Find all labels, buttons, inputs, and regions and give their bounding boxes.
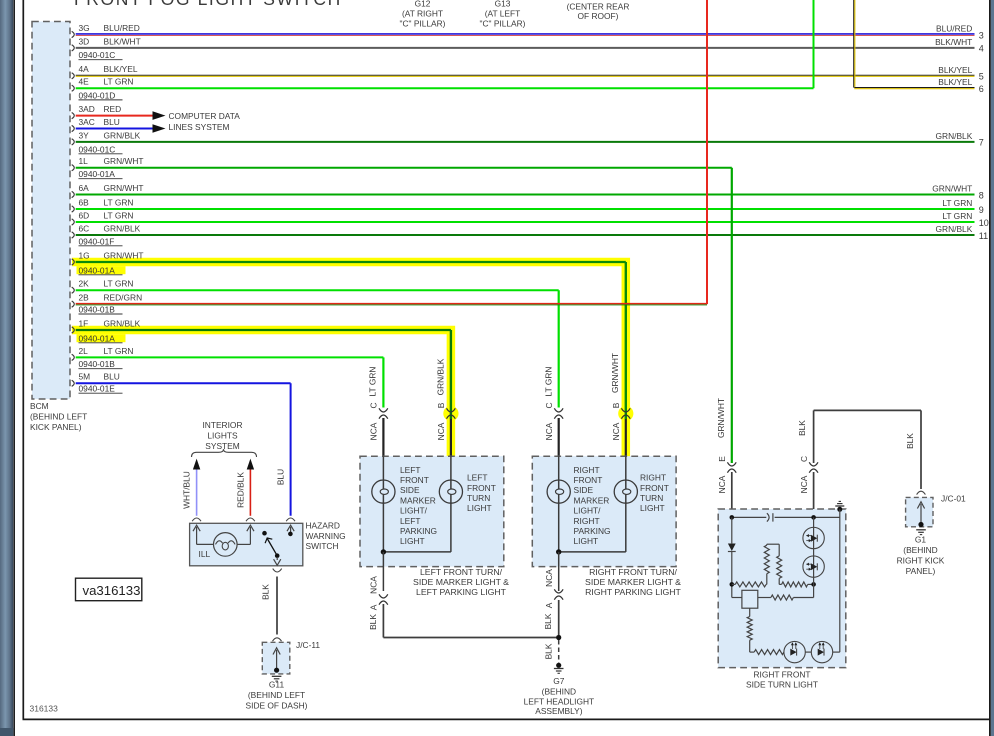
svg-text:WARNING: WARNING	[306, 531, 346, 541]
svg-text:(BEHIND LEFT: (BEHIND LEFT	[248, 690, 305, 700]
svg-text:RED/GRN: RED/GRN	[104, 293, 143, 303]
svg-text:LEFT FRONT TURN/: LEFT FRONT TURN/	[420, 567, 503, 577]
svg-text:GRN/WHT: GRN/WHT	[716, 398, 726, 438]
svg-text:MARKER: MARKER	[400, 495, 436, 505]
svg-text:LINES SYSTEM: LINES SYSTEM	[169, 122, 230, 132]
svg-text:5: 5	[979, 72, 984, 82]
svg-text:SIDE MARKER LIGHT &: SIDE MARKER LIGHT &	[413, 577, 509, 587]
svg-text:1L: 1L	[79, 156, 89, 166]
svg-text:KICK PANEL): KICK PANEL)	[30, 422, 82, 432]
svg-text:316133: 316133	[30, 704, 59, 714]
svg-text:LT GRN: LT GRN	[368, 367, 378, 397]
svg-text:BLK: BLK	[368, 614, 378, 630]
svg-text:SWITCH: SWITCH	[306, 541, 339, 551]
svg-text:LEFT HEADLIGHT: LEFT HEADLIGHT	[524, 697, 595, 707]
svg-text:2B: 2B	[79, 293, 90, 303]
svg-text:RIGHT FRONT TURN/: RIGHT FRONT TURN/	[589, 567, 677, 577]
svg-text:C: C	[544, 402, 554, 408]
svg-text:va316133: va316133	[83, 583, 141, 598]
svg-text:GRN/WHT: GRN/WHT	[610, 353, 620, 393]
svg-text:GRN/BLK: GRN/BLK	[936, 131, 973, 141]
svg-text:3: 3	[979, 30, 984, 40]
svg-text:GRN/WHT: GRN/WHT	[932, 184, 972, 194]
svg-text:6C: 6C	[79, 223, 90, 233]
svg-text:RIGHT: RIGHT	[574, 465, 600, 475]
svg-text:B: B	[436, 402, 446, 408]
svg-text:A: A	[544, 602, 554, 608]
svg-text:NCA: NCA	[436, 422, 446, 440]
svg-text:OF ROOF): OF ROOF)	[578, 11, 619, 21]
svg-text:LEFT PARKING LIGHT: LEFT PARKING LIGHT	[416, 587, 507, 597]
svg-text:9: 9	[979, 205, 984, 215]
svg-text:(AT LEFT: (AT LEFT	[485, 8, 521, 18]
svg-text:LEFT: LEFT	[400, 516, 420, 526]
svg-text:GRN/BLK: GRN/BLK	[104, 223, 141, 233]
svg-text:4E: 4E	[79, 77, 90, 87]
svg-text:4A: 4A	[79, 64, 90, 74]
svg-text:0940-01C: 0940-01C	[79, 144, 116, 154]
svg-text:NCA: NCA	[369, 576, 379, 594]
svg-text:2L: 2L	[79, 346, 89, 356]
svg-text:BLK: BLK	[543, 613, 553, 629]
svg-text:GRN/WHT: GRN/WHT	[104, 183, 144, 193]
svg-text:COMPUTER DATA: COMPUTER DATA	[169, 111, 241, 121]
svg-text:NCA: NCA	[799, 475, 809, 493]
svg-text:NCA: NCA	[369, 422, 379, 440]
svg-text:NCA: NCA	[544, 569, 554, 587]
svg-text:RIGHT KICK: RIGHT KICK	[897, 555, 945, 565]
svg-text:TURN: TURN	[467, 493, 490, 503]
svg-text:LIGHT: LIGHT	[400, 536, 425, 546]
svg-text:LIGHT: LIGHT	[467, 503, 492, 513]
svg-text:BLK: BLK	[261, 584, 271, 600]
svg-text:BLK: BLK	[543, 643, 553, 659]
svg-text:8: 8	[979, 190, 984, 200]
svg-text:6B: 6B	[79, 197, 90, 207]
svg-text:LT GRN: LT GRN	[942, 211, 972, 221]
svg-text:GRN/BLK: GRN/BLK	[104, 130, 141, 140]
svg-text:RED: RED	[104, 104, 122, 114]
svg-text:G1: G1	[915, 535, 927, 545]
svg-text:BLK/WHT: BLK/WHT	[104, 36, 141, 46]
svg-text:GRN/BLK: GRN/BLK	[435, 358, 445, 395]
svg-text:0940-01E: 0940-01E	[79, 384, 116, 394]
svg-text:2K: 2K	[79, 279, 90, 289]
svg-text:BLU/RED: BLU/RED	[104, 23, 140, 33]
svg-text:RIGHT FRONT: RIGHT FRONT	[753, 669, 810, 679]
svg-text:FRONT FOG LIGHT SWITCH: FRONT FOG LIGHT SWITCH	[74, 0, 342, 9]
svg-text:0940-01B: 0940-01B	[79, 359, 116, 369]
svg-text:6D: 6D	[79, 210, 90, 220]
svg-text:3D: 3D	[79, 36, 90, 46]
svg-text:J/C-11: J/C-11	[296, 640, 320, 650]
svg-text:LEFT: LEFT	[467, 473, 487, 483]
svg-text:HAZARD: HAZARD	[306, 521, 340, 531]
svg-text:SIDE: SIDE	[574, 485, 594, 495]
svg-text:3G: 3G	[79, 23, 90, 33]
svg-text:BLK: BLK	[797, 420, 807, 436]
svg-text:RIGHT: RIGHT	[640, 473, 666, 483]
svg-text:LIGHT/: LIGHT/	[400, 506, 428, 516]
svg-text:7: 7	[979, 138, 984, 148]
svg-text:BLU: BLU	[275, 469, 285, 485]
svg-text:3AC: 3AC	[79, 117, 95, 127]
svg-text:BLK/YEL: BLK/YEL	[104, 64, 138, 74]
svg-text:4: 4	[979, 44, 984, 54]
svg-text:SIDE MARKER LIGHT &: SIDE MARKER LIGHT &	[585, 577, 681, 587]
svg-text:NCA: NCA	[611, 422, 621, 440]
svg-text:GRN/BLK: GRN/BLK	[104, 318, 141, 328]
svg-text:PARKING: PARKING	[574, 526, 611, 536]
svg-text:FRONT: FRONT	[574, 475, 603, 485]
svg-text:MARKER: MARKER	[574, 495, 610, 505]
svg-text:0940-01C: 0940-01C	[79, 50, 116, 60]
svg-text:"C" PILLAR): "C" PILLAR)	[480, 18, 526, 28]
svg-text:PARKING: PARKING	[400, 526, 437, 536]
svg-text:0940-01A: 0940-01A	[79, 265, 116, 275]
svg-text:(BEHIND: (BEHIND	[542, 686, 576, 696]
svg-text:C: C	[369, 402, 379, 408]
svg-text:5M: 5M	[79, 372, 91, 382]
svg-text:G7: G7	[553, 676, 565, 686]
svg-text:TURN: TURN	[640, 493, 663, 503]
svg-text:G13: G13	[495, 0, 511, 9]
svg-text:BLK/WHT: BLK/WHT	[935, 37, 972, 47]
svg-text:11: 11	[979, 231, 988, 241]
svg-text:FRONT: FRONT	[467, 483, 496, 493]
svg-text:BLK/YEL: BLK/YEL	[938, 65, 972, 75]
svg-text:"C" PILLAR): "C" PILLAR)	[400, 18, 446, 28]
svg-text:BLU: BLU	[104, 117, 120, 127]
svg-text:6A: 6A	[79, 183, 90, 193]
svg-text:RIGHT: RIGHT	[574, 516, 600, 526]
svg-text:LT GRN: LT GRN	[543, 367, 553, 397]
svg-text:LT GRN: LT GRN	[104, 197, 134, 207]
svg-text:LT GRN: LT GRN	[104, 210, 134, 220]
svg-text:0940-01B: 0940-01B	[79, 305, 116, 315]
svg-text:RIGHT PARKING LIGHT: RIGHT PARKING LIGHT	[585, 587, 681, 597]
svg-text:E: E	[717, 456, 727, 462]
svg-text:LT GRN: LT GRN	[942, 198, 972, 208]
svg-text:SIDE OF DASH): SIDE OF DASH)	[246, 700, 308, 710]
svg-text:BLU/RED: BLU/RED	[936, 24, 972, 34]
svg-text:ASSEMBLY): ASSEMBLY)	[535, 706, 583, 716]
svg-text:LIGHT: LIGHT	[640, 503, 665, 513]
svg-text:0940-01F: 0940-01F	[79, 236, 115, 246]
svg-text:0940-01A: 0940-01A	[79, 169, 116, 179]
svg-text:WHT/BLU: WHT/BLU	[182, 471, 192, 509]
svg-text:0940-01D: 0940-01D	[79, 90, 116, 100]
svg-text:LIGHTS: LIGHTS	[207, 430, 238, 440]
svg-text:G11: G11	[269, 680, 285, 690]
svg-text:G12: G12	[415, 0, 431, 9]
svg-text:LIGHT/: LIGHT/	[574, 506, 602, 516]
svg-text:BLK: BLK	[905, 433, 915, 449]
svg-text:BLU: BLU	[104, 372, 120, 382]
svg-text:J/C-01: J/C-01	[941, 494, 966, 504]
svg-text:SIDE TURN LIGHT: SIDE TURN LIGHT	[746, 680, 818, 690]
svg-text:LT GRN: LT GRN	[104, 77, 134, 87]
svg-text:RED/BLK: RED/BLK	[235, 472, 245, 508]
svg-text:GRN/WHT: GRN/WHT	[104, 250, 144, 260]
svg-text:GRN/BLK: GRN/BLK	[936, 224, 973, 234]
svg-text:B: B	[611, 402, 621, 408]
svg-text:(BEHIND: (BEHIND	[903, 545, 937, 555]
svg-text:LT GRN: LT GRN	[104, 346, 134, 356]
svg-text:INTERIOR: INTERIOR	[202, 420, 242, 430]
svg-text:10: 10	[979, 218, 989, 228]
svg-text:A: A	[369, 604, 379, 610]
svg-text:NCA: NCA	[544, 422, 554, 440]
svg-text:ILL: ILL	[199, 549, 211, 559]
svg-text:3Y: 3Y	[79, 130, 90, 140]
svg-text:(BEHIND LEFT: (BEHIND LEFT	[30, 412, 87, 422]
svg-text:PANEL): PANEL)	[906, 566, 936, 576]
svg-text:C: C	[799, 456, 809, 462]
svg-text:(CENTER REAR: (CENTER REAR	[567, 1, 630, 11]
svg-text:FRONT: FRONT	[640, 483, 669, 493]
svg-text:LIGHT: LIGHT	[574, 536, 599, 546]
svg-text:GRN/WHT: GRN/WHT	[104, 156, 144, 166]
svg-text:1G: 1G	[79, 250, 90, 260]
svg-text:FRONT: FRONT	[400, 475, 429, 485]
svg-text:BLK/YEL: BLK/YEL	[938, 77, 972, 87]
svg-text:0940-01A: 0940-01A	[79, 333, 116, 343]
svg-text:BCM: BCM	[30, 401, 49, 411]
svg-text:(AT RIGHT: (AT RIGHT	[402, 8, 443, 18]
svg-text:LT GRN: LT GRN	[104, 279, 134, 289]
svg-text:NCA: NCA	[717, 475, 727, 493]
svg-text:LEFT: LEFT	[400, 465, 420, 475]
svg-text:SYSTEM: SYSTEM	[205, 441, 239, 451]
svg-text:SIDE: SIDE	[400, 485, 420, 495]
svg-text:1F: 1F	[79, 318, 89, 328]
svg-text:6: 6	[979, 84, 984, 94]
svg-text:3AD: 3AD	[79, 104, 95, 114]
